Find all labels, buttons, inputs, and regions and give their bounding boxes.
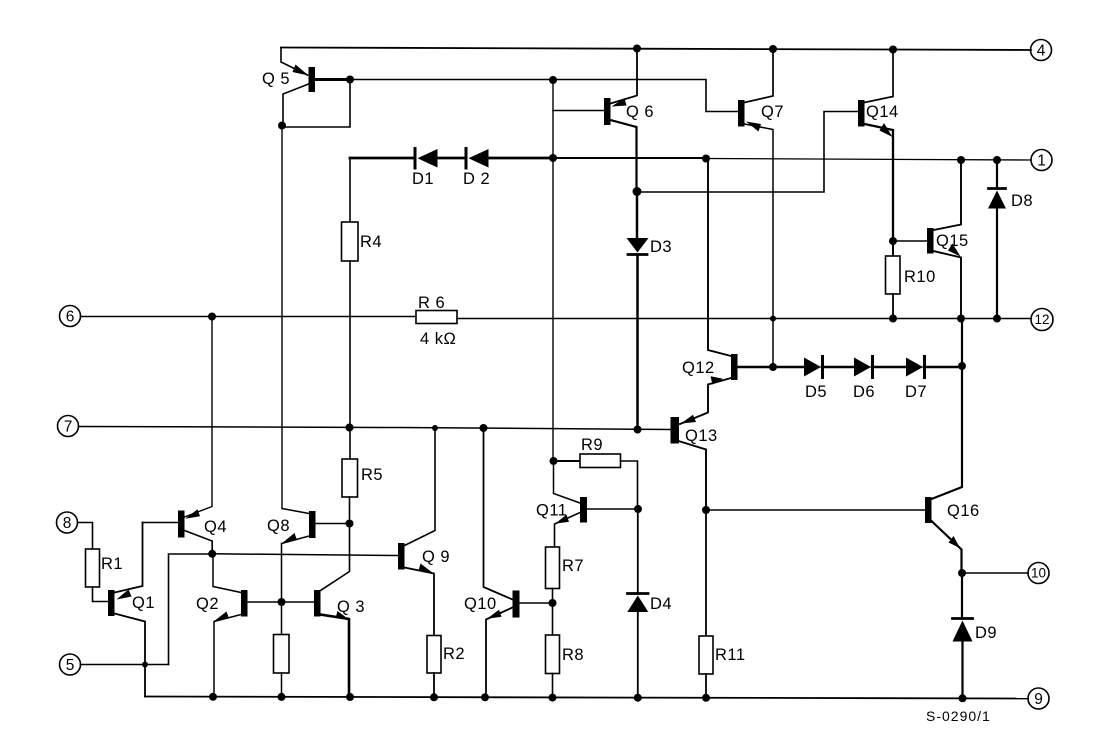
diode D5 (pointing right) <box>804 358 821 377</box>
svg-text:R7: R7 <box>562 557 584 575</box>
diode D1 (pointing left) <box>414 149 417 169</box>
svg-text:Q8: Q8 <box>267 517 290 535</box>
node: pin7 junction Q9 collector <box>432 425 438 431</box>
svg-text:12: 12 <box>1034 312 1049 327</box>
node: pin5 crossing Q1 emitter <box>142 662 148 668</box>
transistor Q12 (PNP) <box>731 354 738 380</box>
wire: base row to Q3 <box>282 601 315 603</box>
svg-text:Q7: Q7 <box>761 103 784 121</box>
svg-text:Q13: Q13 <box>685 427 718 445</box>
node: rail junction Q15 emitter <box>957 315 965 323</box>
node: pin7 junction R4/R5 column <box>346 424 354 432</box>
diode D9 (pointing up) <box>961 573 963 618</box>
node: rail dot D9 <box>959 694 967 702</box>
node: Q12 base junction with Q7 emitter <box>769 363 777 371</box>
svg-text:Q4: Q4 <box>204 518 227 536</box>
pin 4 terminal <box>1031 40 1052 61</box>
svg-text:D8: D8 <box>1011 192 1033 210</box>
node: rail junction D8 anode <box>993 315 1001 323</box>
wire: Q5 base line to Q7 base <box>350 80 738 112</box>
transistor Q9 (NPN) <box>398 543 405 570</box>
diode D3 (pointing down) <box>636 192 639 239</box>
node: tail node junction <box>208 550 216 558</box>
transistor Q16 (NPN) <box>925 497 932 523</box>
svg-text:D6: D6 <box>853 383 875 401</box>
resistor R2 <box>427 636 441 674</box>
node: rail dot R11 <box>702 694 710 702</box>
transistor Q2 (NPN) <box>241 590 248 617</box>
wire: Q4 base link <box>143 522 179 524</box>
svg-text:R5: R5 <box>361 466 383 484</box>
svg-text:Q1: Q1 <box>132 594 155 612</box>
node: D2 junction with bias vertical <box>549 154 557 162</box>
transistor Q5 (PNP, diode-connected) <box>281 48 308 76</box>
svg-text:R9: R9 <box>581 436 603 454</box>
diode D4 (pointing up) <box>637 509 639 593</box>
svg-text:5: 5 <box>66 657 75 674</box>
wire: pin 10 line <box>962 572 1028 574</box>
node: rail dot unlabeled resistor <box>278 693 286 701</box>
svg-text:Q16: Q16 <box>947 502 980 520</box>
node: pin7 junction Q10 collector <box>480 424 488 432</box>
resistor R10 <box>892 241 894 256</box>
wire: long bias vertical x553 down to R9 node <box>552 80 554 461</box>
svg-text:Q2: Q2 <box>196 595 219 613</box>
node: rail junction Q7 emitter column <box>770 316 776 322</box>
svg-text:R4: R4 <box>360 233 382 251</box>
resistor R6 4k <box>416 311 457 324</box>
wire: pin6 rail left of R6 <box>81 316 417 318</box>
wire: pin 7 line to Q13 base <box>79 427 672 430</box>
node: D3 top junction <box>633 187 642 196</box>
wire: Q6 base branch <box>553 110 604 112</box>
node: R7/R8/Q10 base junction <box>549 599 557 607</box>
svg-text:8: 8 <box>63 515 72 532</box>
pin 8 terminal <box>57 512 78 533</box>
transistor Q15 (NPN) <box>927 228 934 254</box>
node: diode string junction with Q16 collector column <box>958 362 966 370</box>
wire: long vertical x282 from Q5 collector to Q8 <box>281 126 283 509</box>
svg-text:D7: D7 <box>905 383 927 401</box>
pin 1 terminal <box>1031 150 1052 171</box>
node: pin1 line junction D8 <box>993 156 1001 164</box>
svg-text:D9: D9 <box>975 624 997 642</box>
svg-text:Q12: Q12 <box>682 359 715 377</box>
svg-text:R10: R10 <box>904 268 936 286</box>
svg-text:R8: R8 <box>562 646 584 664</box>
svg-text:R11: R11 <box>715 646 746 664</box>
svg-text:9: 9 <box>1034 691 1043 708</box>
wire: pin 5 riser to tail node <box>169 554 213 665</box>
svg-text:Q10: Q10 <box>464 595 497 613</box>
node: top rail junction at Q7 collector column <box>769 45 777 53</box>
svg-text:R 6: R 6 <box>418 294 445 312</box>
pin 12 terminal <box>1031 309 1053 331</box>
svg-text:D4: D4 <box>650 595 672 613</box>
transistor Q10 (NPN) <box>513 591 520 618</box>
pin 9 terminal <box>1028 688 1049 709</box>
svg-text:10: 10 <box>1031 566 1046 581</box>
node: Q2/Q3 base row junction <box>278 598 286 606</box>
node: top rail junction at Q6 collector column <box>633 45 641 53</box>
svg-text:Q 6: Q 6 <box>626 103 654 121</box>
pin 6 terminal <box>60 306 81 327</box>
pin 10 terminal <box>1028 563 1049 584</box>
node: pin7 junction D3 anode <box>634 426 642 434</box>
diode D7 (pointing right) <box>906 358 923 377</box>
wire: Q5 base-collector tie loop <box>282 80 350 128</box>
svg-text:6: 6 <box>66 309 75 326</box>
wire: pin 1 line middle <box>553 157 706 159</box>
node: Q15 base / R10 top junction <box>889 237 897 245</box>
wire: junction down to Q3 collector <box>321 524 350 591</box>
resistor R9 <box>550 457 558 465</box>
wire: Q12 base / diode string line <box>738 366 805 369</box>
svg-text:D1: D1 <box>412 170 434 188</box>
svg-text:4: 4 <box>1037 43 1046 60</box>
node: Q16 base junction on x706 column <box>702 506 710 514</box>
svg-text:R2: R2 <box>443 645 465 663</box>
node: pin 10 junction <box>958 569 966 577</box>
wire: top V+ rail to pin 4 <box>281 48 1031 51</box>
transistor Q7 (PNP) <box>738 100 745 127</box>
node: rail junction at Q4 collector column <box>208 313 216 321</box>
wire: pin 5 line <box>81 664 169 666</box>
transistor Q6 (PNP) <box>604 98 611 125</box>
resistor R7 <box>546 547 560 589</box>
resistor (unlabeled) below base row <box>281 602 283 635</box>
transistor Q11 (NPN) <box>580 497 587 523</box>
node: Q11 base / D4 junction <box>634 505 642 513</box>
wire: pin 1 line right to terminal <box>706 159 1031 161</box>
svg-text:Q15: Q15 <box>936 232 969 250</box>
transistor Q3 (NPN) <box>314 590 321 617</box>
transistor Q14 (NPN) <box>858 100 865 127</box>
wire: rail right of R6 to pin 12 <box>457 318 1031 320</box>
transistor Q1 (PNP) <box>108 590 115 616</box>
wire: D3 node to Q14 base <box>637 112 858 193</box>
svg-text:D3: D3 <box>650 238 672 256</box>
resistor R4 <box>349 158 351 222</box>
node: rail dot D4 <box>634 694 642 702</box>
node: rail junction R10 bottom <box>889 315 897 323</box>
wire: Q15 base link <box>893 240 927 242</box>
wire: tail node to Q9 base <box>212 554 398 556</box>
node: Q5 base junction <box>346 76 354 84</box>
svg-text:4 kΩ: 4 kΩ <box>420 330 456 348</box>
node: pin1 line junction with Q12 collector <box>702 155 710 163</box>
svg-text:S-0290/1: S-0290/1 <box>926 708 991 724</box>
svg-text:Q 5: Q 5 <box>262 70 290 88</box>
resistor R1 <box>78 523 93 550</box>
pin 5 terminal <box>60 654 81 675</box>
wire: bottom V- rail <box>145 697 1028 699</box>
svg-text:D 2: D 2 <box>463 170 490 188</box>
diode D2 (pointing left) <box>465 149 468 169</box>
node: rail dot R8 <box>549 694 557 702</box>
svg-text:Q14: Q14 <box>866 103 899 121</box>
node: rail dot Q3 emitter <box>346 693 354 701</box>
svg-text:R1: R1 <box>101 555 123 573</box>
svg-text:1: 1 <box>1037 153 1046 170</box>
node: rail dot Q2 emitter <box>209 693 217 701</box>
node: R5 bottom / Q8 base / Q3 collector junction <box>346 520 354 528</box>
diode D8 (pointing up) <box>996 160 998 188</box>
resistor R5 <box>342 459 358 497</box>
svg-text:Q11: Q11 <box>536 502 567 520</box>
pin 7 terminal <box>58 416 79 437</box>
transistor Q8 (NPN) <box>309 511 316 538</box>
node: top rail junction at Q14 collector column <box>889 46 897 54</box>
resistor R11 <box>705 510 707 636</box>
node: rail dot R2 <box>430 693 438 701</box>
wire: Q16 base line <box>706 509 925 511</box>
diode D6 (pointing right) <box>854 358 871 377</box>
node: bias line junction x553 <box>549 76 557 84</box>
svg-text:Q 9: Q 9 <box>422 548 450 566</box>
svg-text:7: 7 <box>64 419 73 436</box>
node: Q5 collector junction <box>278 122 286 130</box>
svg-text:D5: D5 <box>805 383 827 401</box>
resistor R8 <box>552 603 554 635</box>
node: pin1 line junction Q15 collector <box>957 156 965 164</box>
node: rail dot Q10 emitter <box>481 693 489 701</box>
transistor Q13 (PNP) <box>671 417 680 444</box>
wire: pin 1 / diode D1 D2 line <box>350 157 413 160</box>
svg-text:Q 3: Q 3 <box>337 598 365 616</box>
transistor Q4 (PNP) <box>178 511 185 538</box>
